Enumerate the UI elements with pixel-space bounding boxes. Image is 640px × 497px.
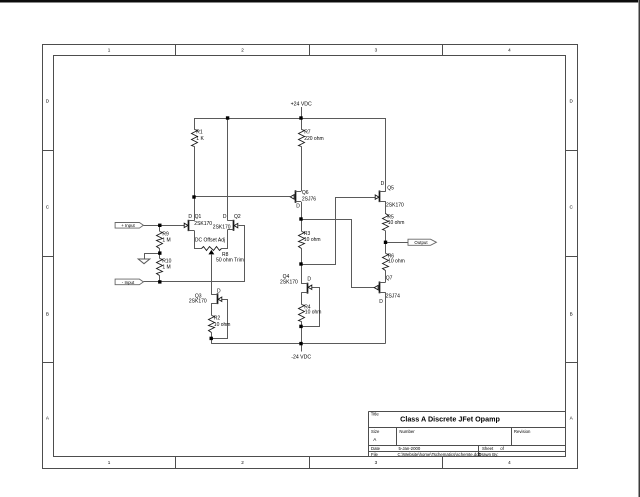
svg-text:B: B (570, 312, 573, 317)
svg-text:Output: Output (414, 240, 428, 245)
svg-text:3: 3 (375, 47, 378, 52)
svg-text:220 ohm: 220 ohm (304, 136, 323, 142)
svg-text:D: D (381, 181, 385, 187)
svg-text:C: C (570, 205, 574, 210)
svg-text:D: D (379, 299, 383, 305)
svg-text:+ Input: + Input (121, 223, 135, 228)
svg-text:-24 VDC: -24 VDC (291, 354, 311, 360)
svg-text:D: D (570, 99, 574, 104)
svg-text:Q1: Q1 (195, 214, 202, 220)
svg-text:1 M: 1 M (162, 237, 170, 243)
svg-text:1 K: 1 K (196, 136, 204, 142)
svg-text:File: File (371, 452, 379, 457)
svg-text:D: D (46, 99, 50, 104)
svg-text:5-Jan-2000: 5-Jan-2000 (399, 446, 421, 451)
svg-text:Title: Title (371, 412, 380, 417)
svg-text:10 ohm: 10 ohm (388, 220, 405, 226)
svg-text:4: 4 (508, 47, 511, 52)
svg-text:R2: R2 (214, 316, 221, 322)
svg-text:Drawn By:: Drawn By: (479, 452, 499, 457)
svg-text:C: C (46, 205, 50, 210)
svg-text:3: 3 (375, 460, 378, 465)
svg-text:D: D (307, 276, 311, 282)
svg-text:1 M: 1 M (162, 265, 170, 271)
svg-text:D: D (217, 288, 221, 294)
svg-text:2SJ74: 2SJ74 (386, 294, 400, 300)
svg-text:10 ohm: 10 ohm (214, 322, 231, 328)
svg-text:2: 2 (241, 47, 244, 52)
svg-text:DC Offset Adj: DC Offset Adj (195, 237, 225, 243)
svg-text:+24 VDC: +24 VDC (291, 101, 312, 107)
svg-text:Q5: Q5 (387, 186, 394, 192)
svg-text:2SJ76: 2SJ76 (302, 197, 316, 203)
svg-text:A: A (570, 415, 574, 420)
svg-text:D: D (223, 214, 227, 220)
svg-text:10 ohm: 10 ohm (304, 237, 321, 243)
svg-text:4: 4 (508, 460, 511, 465)
svg-text:Size: Size (371, 429, 380, 434)
svg-text:10 ohm: 10 ohm (388, 259, 405, 265)
svg-text:A: A (373, 437, 377, 442)
svg-text:2SK170: 2SK170 (386, 202, 404, 208)
svg-text:Revision: Revision (514, 429, 531, 434)
svg-text:Q7: Q7 (386, 276, 393, 282)
svg-text:Date: Date (371, 446, 381, 451)
svg-text:Number: Number (399, 429, 415, 434)
svg-text:R7: R7 (304, 130, 311, 136)
svg-text:2: 2 (241, 460, 244, 465)
svg-text:2SK170: 2SK170 (280, 280, 298, 286)
svg-text:D: D (296, 204, 300, 210)
svg-text:2SK170: 2SK170 (189, 299, 207, 305)
svg-text:D: D (188, 214, 192, 220)
svg-text:1: 1 (108, 460, 111, 465)
svg-text:- Input: - Input (122, 280, 135, 285)
svg-text:Class A Discrete JFet Opamp: Class A Discrete JFet Opamp (400, 415, 500, 424)
svg-text:B: B (46, 312, 49, 317)
svg-text:Q2: Q2 (234, 214, 241, 220)
svg-text:2SK170: 2SK170 (213, 225, 231, 231)
svg-text:50 ohm Trim: 50 ohm Trim (216, 257, 244, 263)
svg-text:Q6: Q6 (302, 190, 309, 196)
svg-text:C:\Website\home\Tschematics\sc: C:\Website\home\Tschematics\schemte.ddb (398, 452, 482, 457)
svg-text:R1: R1 (196, 130, 203, 136)
svg-text:1: 1 (108, 47, 111, 52)
svg-text:2SK170: 2SK170 (194, 221, 212, 227)
svg-text:of: of (500, 446, 504, 451)
svg-text:A: A (46, 415, 50, 420)
svg-text:Sheet: Sheet (482, 446, 494, 451)
svg-text:10 ohm: 10 ohm (305, 310, 322, 316)
